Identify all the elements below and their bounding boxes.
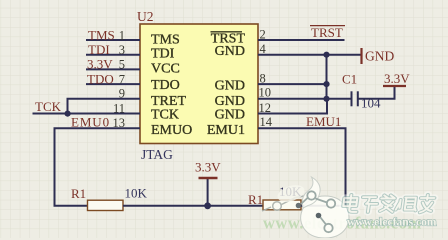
svg-text:TDO: TDO: [87, 71, 114, 86]
svg-text:10K: 10K: [125, 186, 148, 201]
svg-text:GND: GND: [215, 44, 245, 59]
wire second resistor up to EMU1 pin 14: [258, 128, 346, 206]
wire pin 12 up to ground bus: [258, 99, 327, 114]
svg-text:TRST: TRST: [311, 25, 343, 40]
svg-text:9: 9: [119, 86, 125, 100]
wire ground bus vertical: [326, 55, 328, 99]
watermark trace doodles left of logo: [262, 196, 304, 211]
watermark chinese characters 电子发烧友 (hand drawn strokes): [342, 195, 434, 213]
svg-text:3.3V: 3.3V: [384, 71, 410, 86]
pin name TRST (pin 2, active low): [211, 32, 246, 47]
svg-text:U2: U2: [137, 9, 154, 24]
IC U2 JTAG connector body: [140, 24, 258, 144]
junction pin 4 / ground bus: [323, 52, 329, 58]
svg-text:www.elecfans.com: www.elecfans.com: [347, 217, 437, 229]
svg-text:4: 4: [260, 42, 267, 56]
svg-text:EMU1: EMU1: [207, 123, 245, 138]
junction dot at 3.3V stem: [204, 202, 211, 209]
power port GND (bar style): [362, 48, 395, 64]
svg-text:VCC: VCC: [151, 62, 180, 77]
svg-text:3: 3: [119, 43, 125, 57]
svg-text:JTAG: JTAG: [141, 147, 173, 162]
svg-text:14: 14: [260, 115, 273, 129]
wire pin 10: [258, 98, 327, 100]
wire TDO to pin 7: [86, 83, 140, 85]
resistor R1 (second, pull-up EMU1) body: [263, 200, 301, 210]
wire EMU0 pin 13 down to R1: [55, 128, 141, 206]
svg-text:10: 10: [259, 86, 272, 100]
wire TDI to pin 3: [86, 54, 140, 56]
svg-text:C1: C1: [342, 72, 357, 87]
junction pin 10 / ground bus / C1: [323, 96, 329, 102]
svg-text:TMS: TMS: [151, 33, 180, 48]
wire pin 9 to TCK branch: [68, 99, 141, 114]
svg-text:8: 8: [260, 72, 266, 86]
svg-text:13: 13: [113, 116, 126, 130]
wire pin 4 to GND port: [258, 54, 362, 56]
svg-text:EMUO: EMUO: [151, 123, 192, 138]
wire R1 to 3.3V junction: [123, 205, 263, 207]
wire ground bus to C1 left plate: [327, 98, 352, 100]
svg-text:GND: GND: [365, 49, 394, 64]
wire TCK to pin 11: [33, 113, 141, 115]
resistor R1 body: [88, 200, 124, 210]
watermark logo bird: [275, 177, 349, 238]
svg-text:3.3V: 3.3V: [87, 57, 113, 72]
svg-text:TCK: TCK: [151, 107, 179, 122]
svg-text:TCK: TCK: [35, 99, 62, 114]
watermark group: [262, 177, 437, 238]
power port 3.3V (bottom): [195, 160, 221, 206]
svg-text:2: 2: [260, 28, 266, 42]
svg-text:GND: GND: [215, 107, 245, 122]
capacitor C1: [352, 91, 358, 106]
svg-text:EMU1: EMU1: [306, 114, 341, 129]
svg-text:12: 12: [259, 101, 272, 115]
svg-text:3.3V: 3.3V: [195, 160, 221, 175]
wire C1 right plate to 3.3V: [358, 86, 395, 99]
svg-text:11: 11: [113, 101, 125, 115]
wire 3.3V to pin 5: [86, 68, 140, 70]
svg-text:5: 5: [119, 58, 125, 72]
svg-text:TDI: TDI: [151, 47, 175, 62]
wire pin 2 TRST: [258, 39, 345, 41]
svg-text:R1: R1: [248, 192, 263, 207]
svg-text:TDO: TDO: [151, 78, 180, 93]
wire pin 8: [258, 83, 327, 85]
power port 3.3V (right): [383, 71, 410, 86]
svg-text:104: 104: [361, 96, 381, 111]
net label TRST (active low): [310, 25, 345, 40]
svg-text:1: 1: [119, 28, 125, 42]
svg-text:R1: R1: [71, 186, 86, 201]
junction TCK / pin 9 branch: [65, 111, 71, 117]
svg-text:TMS: TMS: [88, 27, 115, 42]
junction pin 8 / ground bus: [323, 81, 329, 87]
svg-text:GND: GND: [215, 78, 245, 93]
svg-text:7: 7: [119, 72, 125, 86]
svg-text:TDI: TDI: [88, 42, 110, 57]
svg-text:EMU0: EMU0: [71, 114, 110, 129]
wire TMS to pin 1: [86, 39, 140, 41]
